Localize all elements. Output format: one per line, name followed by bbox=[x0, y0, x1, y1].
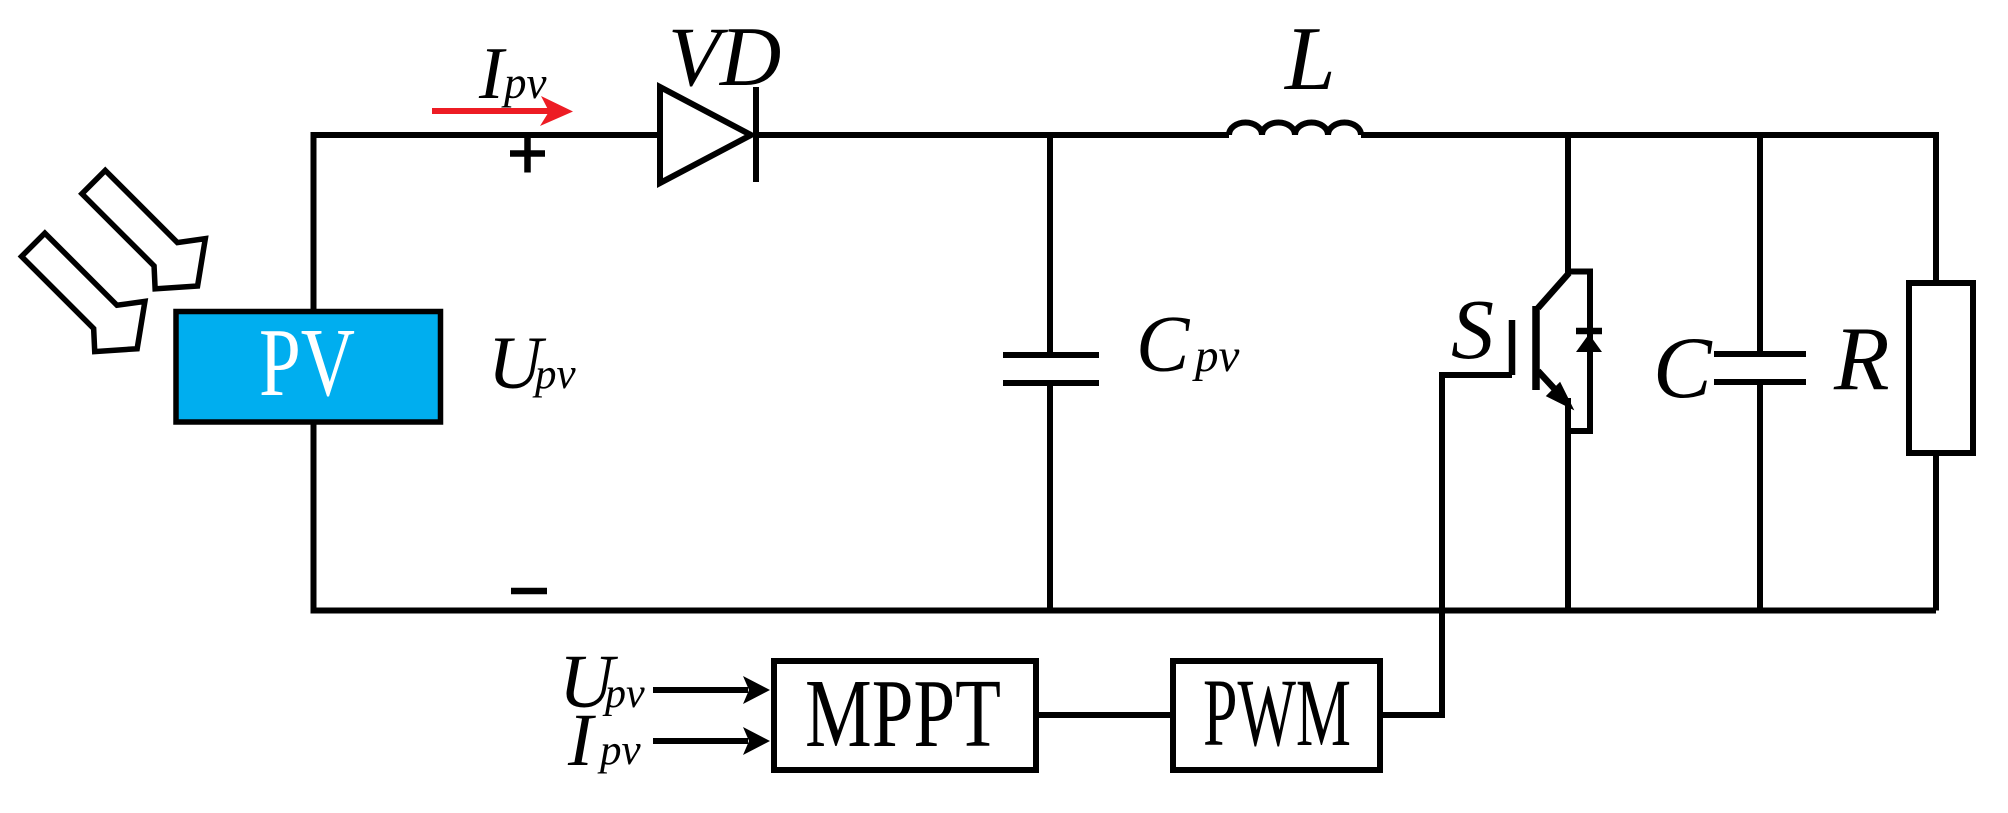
IGBT channel bar bbox=[1532, 306, 1540, 390]
diode VD cathode bar bbox=[753, 87, 759, 182]
wire: PV bottom to bottom rail and bottom rail bbox=[314, 424, 1937, 611]
plus sign bbox=[510, 135, 545, 173]
inductor L bbox=[1229, 123, 1361, 136]
svg-text:PV: PV bbox=[259, 309, 355, 417]
input arrow Ipv bbox=[653, 738, 748, 744]
wire: diode to inductor bbox=[753, 132, 1229, 138]
svg-text:pv: pv bbox=[1192, 330, 1240, 382]
antiparallel diode loop bbox=[1568, 272, 1590, 432]
svg-text:MPPT: MPPT bbox=[805, 660, 1001, 767]
input arrow Upv bbox=[653, 687, 748, 693]
wire: Cpv branch bottom bbox=[1047, 383, 1053, 611]
wire: PV top to top rail and top rail left segment bbox=[314, 135, 663, 309]
PV module box bbox=[176, 312, 441, 423]
gate wire from PWM to IGBT gate bbox=[1383, 375, 1512, 715]
svg-text:pv: pv bbox=[597, 727, 642, 774]
wire: Cpv branch top bbox=[1047, 135, 1053, 355]
svg-text:VD: VD bbox=[668, 10, 781, 104]
svg-text:pv: pv bbox=[501, 58, 547, 108]
IGBT collector diagonal bbox=[1538, 273, 1569, 308]
antiparallel diode triangle bbox=[1576, 334, 1602, 352]
svg-text:PWM: PWM bbox=[1203, 659, 1351, 766]
capacitor C bottom plate bbox=[1714, 379, 1806, 385]
capacitor Cpv bottom plate bbox=[1003, 380, 1099, 386]
svg-text:pv: pv bbox=[602, 671, 645, 717]
sun ray arrow 2 bbox=[11, 217, 165, 371]
capacitor Cpv top plate bbox=[1003, 352, 1099, 358]
sun ray arrow 1 bbox=[71, 155, 225, 309]
PWM box bbox=[1173, 661, 1380, 770]
svg-text:L: L bbox=[1283, 8, 1336, 109]
resistor R bbox=[1909, 283, 1973, 453]
IGBT gate bar bbox=[1509, 320, 1516, 375]
wire: capacitor C branch top bbox=[1757, 135, 1763, 354]
svg-text:C: C bbox=[1136, 301, 1191, 389]
MPPT box bbox=[774, 661, 1036, 770]
svg-text:R: R bbox=[1833, 308, 1890, 409]
IGBT emitter wire bbox=[1565, 398, 1571, 611]
svg-text:pv: pv bbox=[532, 351, 577, 398]
svg-text:C: C bbox=[1653, 320, 1713, 417]
wire: resistor bottom to bottom rail bbox=[1933, 453, 1939, 611]
wire: capacitor C branch bottom bbox=[1757, 382, 1763, 611]
minus sign bbox=[511, 588, 547, 595]
IGBT emitter arrowhead bbox=[1548, 384, 1571, 407]
svg-text:S: S bbox=[1451, 281, 1494, 377]
wire MPPT to PWM bbox=[1036, 712, 1173, 718]
svg-text:I: I bbox=[567, 699, 596, 782]
IGBT S collector wire bbox=[1565, 135, 1571, 274]
svg-text:I: I bbox=[478, 33, 507, 115]
red current arrow Ipv bbox=[432, 108, 550, 114]
diode VD bbox=[660, 87, 751, 183]
antiparallel diode cathode bar bbox=[1576, 328, 1602, 335]
capacitor C top plate bbox=[1714, 351, 1806, 357]
IGBT emitter diagonal bbox=[1538, 371, 1562, 397]
wire: inductor to top-right corner down to resistor bbox=[1361, 135, 1936, 283]
